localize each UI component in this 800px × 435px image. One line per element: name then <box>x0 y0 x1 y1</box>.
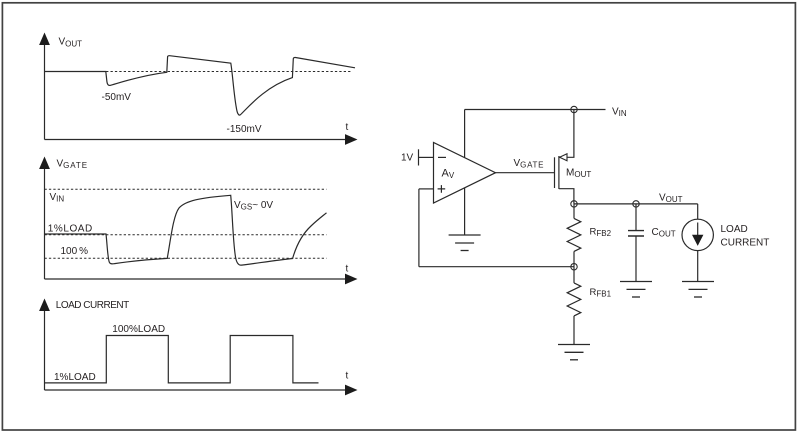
chart1 x-axis arrowhead <box>345 134 358 145</box>
current source arrow shaft <box>697 223 699 244</box>
node VIN <box>571 106 577 112</box>
node VOUT <box>571 201 577 207</box>
mosfet MOUT channel bar <box>558 156 560 189</box>
svg-text:100%LOAD: 100%LOAD <box>112 324 165 335</box>
ground current source <box>682 282 714 298</box>
resistor RFB2 <box>567 218 581 251</box>
svg-text:-150mV: -150mV <box>227 124 262 135</box>
svg-text:MOUT: MOUT <box>566 168 591 180</box>
svg-text:-50mV: -50mV <box>102 92 132 103</box>
op-amp supply wire to VIN rail <box>464 110 466 158</box>
wire RFB1 to ground <box>573 316 575 344</box>
ground COUT <box>620 282 652 298</box>
chart2 dashed 100% level <box>45 257 327 259</box>
svg-text:t: t <box>346 264 349 275</box>
svg-text:CURRENT: CURRENT <box>721 238 770 249</box>
mosfet source arrow (PMOS) <box>560 154 567 161</box>
svg-text:COUT: COUT <box>652 227 676 239</box>
op-amp U1 triangle <box>434 143 496 204</box>
op-amp ground wire <box>464 188 466 235</box>
wire op-amp output to gate <box>496 172 555 174</box>
chart3 x-axis <box>45 389 347 391</box>
svg-text:LOAD CURRENT: LOAD CURRENT <box>56 300 129 311</box>
svg-text:VOUT: VOUT <box>659 193 683 205</box>
current source arrowhead <box>692 235 703 246</box>
capacitor COUT plates <box>628 231 644 236</box>
chart2 VGATE waveform <box>45 195 327 265</box>
svg-text:100 %: 100 % <box>61 246 89 257</box>
chart3 x-axis arrowhead <box>345 385 358 396</box>
chart1 y-axis <box>44 45 46 140</box>
VOUT wire across <box>574 203 698 205</box>
chart1 y-axis arrowhead <box>39 33 50 46</box>
wire COUT to ground <box>635 236 637 281</box>
svg-text:1%LOAD: 1%LOAD <box>54 372 96 383</box>
svg-text:VIN: VIN <box>50 192 65 204</box>
wire current source to ground <box>697 251 699 282</box>
svg-text:t: t <box>346 371 349 382</box>
ground op-amp <box>449 235 481 251</box>
mosfet source lead to output node <box>559 189 574 204</box>
wire RFB2 to FB node <box>573 251 575 266</box>
chart3 y-axis arrowhead <box>39 299 50 312</box>
svg-text:VGS~ 0V: VGS~ 0V <box>234 200 273 212</box>
chart1 x-axis <box>45 139 347 141</box>
wire FB node to RFB1 <box>573 267 575 283</box>
chart2 y-axis arrowhead <box>39 157 50 170</box>
wire COUT node down <box>635 204 637 230</box>
chart2 dashed VIN level <box>45 188 327 190</box>
wire op-amp plus input <box>419 188 434 190</box>
VIN rail wire <box>465 109 606 111</box>
wire VOUT to current source <box>697 204 699 219</box>
mosfet drain lead to VIN node <box>559 110 574 158</box>
feedback wire horizontal bottom <box>419 266 574 268</box>
node FB <box>571 264 577 270</box>
chart2 x-axis arrowhead <box>345 274 358 285</box>
svg-text:VOUT: VOUT <box>59 37 83 49</box>
svg-text:VGATE: VGATE <box>514 158 545 170</box>
svg-text:RFB2: RFB2 <box>590 227 612 238</box>
chart2 x-axis <box>45 278 347 280</box>
chart3 load current square waveform <box>45 336 319 383</box>
chart1 dashed nominal level <box>45 71 352 73</box>
svg-text:RFB1: RFB1 <box>590 287 612 298</box>
wire node to RFB2 <box>573 204 575 219</box>
resistor RFB1 <box>567 283 581 316</box>
chart1 VOUT waveform <box>45 56 356 115</box>
feedback wire vertical left <box>418 189 420 267</box>
svg-text:VIN: VIN <box>612 107 627 119</box>
chart2 y-axis <box>44 169 46 280</box>
op-amp minus sign <box>438 156 446 158</box>
svg-text:t: t <box>346 122 349 133</box>
svg-text:1%LOAD: 1%LOAD <box>48 223 93 234</box>
node COUT top <box>633 201 639 207</box>
mosfet MOUT gate bar <box>554 157 556 188</box>
voltage source bar <box>418 149 420 165</box>
ground RFB1 <box>558 345 590 360</box>
wire source to op-amp inverting input <box>419 156 434 158</box>
current source circle <box>682 219 713 250</box>
chart2 dashed 1% load level <box>45 234 327 236</box>
op-amp plus sign <box>438 185 446 193</box>
chart3 y-axis <box>44 311 46 391</box>
svg-text:VGATE: VGATE <box>57 159 88 171</box>
svg-text:LOAD: LOAD <box>721 224 748 235</box>
svg-text:1V: 1V <box>401 153 414 164</box>
